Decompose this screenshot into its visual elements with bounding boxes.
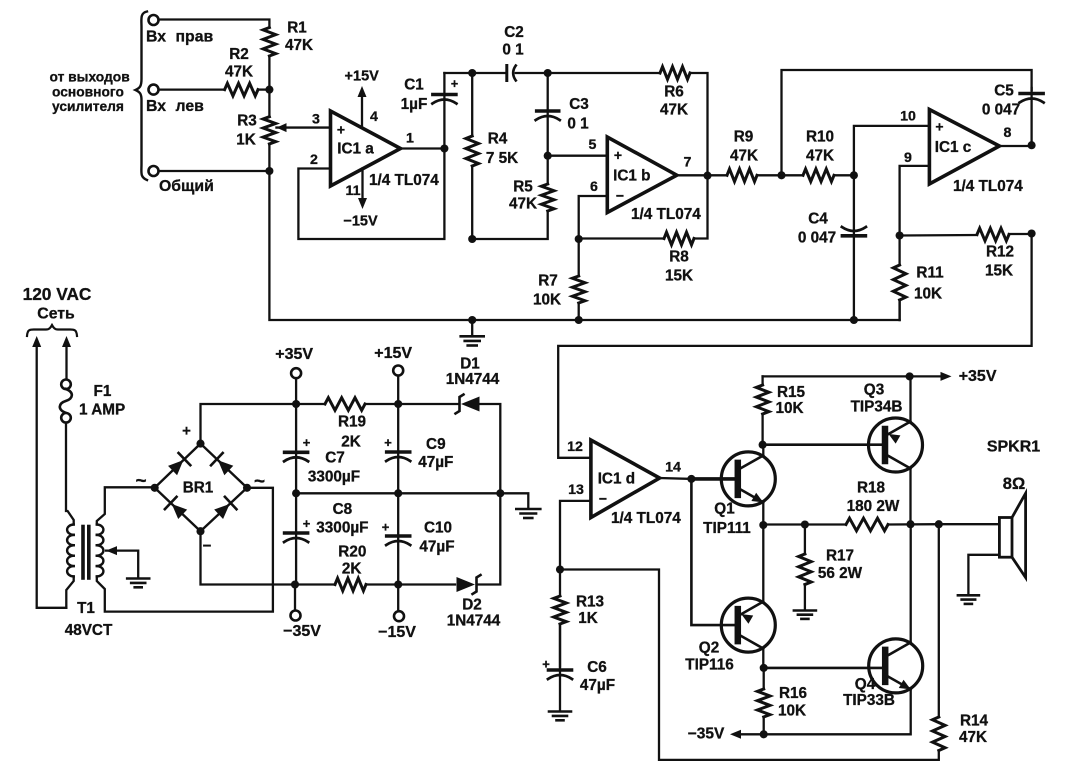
svg-text:180 2W: 180 2W: [847, 498, 900, 515]
resistor R5 wires: [547, 156, 549, 184]
wire fuse to primary: [66, 423, 74, 525]
svg-text:−: −: [616, 188, 624, 204]
node mid-C9 junction: [394, 489, 402, 497]
svg-text:C7: C7: [325, 450, 345, 467]
wire to Q2 base: [691, 479, 734, 625]
resistor R17: [799, 554, 812, 585]
svg-text:IC1 a: IC1 a: [337, 141, 374, 158]
fuse F1: [61, 380, 71, 390]
svg-text:усилителя: усилителя: [52, 99, 124, 114]
svg-text:56 2W: 56 2W: [818, 565, 863, 582]
svg-text:+35V: +35V: [275, 346, 313, 363]
svg-text:15K: 15K: [985, 263, 1013, 280]
svg-text:47K: 47K: [285, 37, 313, 54]
BR1 diode bottom-right: [214, 504, 229, 519]
resistor R4 wires: [471, 73, 473, 136]
svg-text:+15V: +15V: [374, 345, 412, 362]
wire pin 13: [560, 501, 591, 570]
svg-text:Сеть: Сеть: [37, 306, 75, 323]
svg-text:+15V: +15V: [345, 69, 380, 85]
Q4 emitter wire: [764, 689, 911, 734]
wire R3 to node B: [268, 144, 270, 171]
svg-text:C10: C10: [424, 520, 452, 537]
svg-text:−15V: −15V: [343, 214, 378, 230]
wire R10 to node E: [834, 174, 854, 176]
capacitor C3: [537, 109, 559, 113]
svg-text:IC1 c: IC1 c: [935, 139, 972, 156]
resistor R15: [756, 385, 769, 414]
diode D2 wires: [398, 583, 455, 585]
svg-text:47K: 47K: [959, 729, 987, 746]
svg-text:0 047: 0 047: [798, 230, 836, 247]
svg-text:C1: C1: [404, 77, 424, 94]
svg-text:−: −: [203, 538, 212, 555]
svg-text:15K: 15K: [665, 268, 693, 285]
terminal Вх лев: [149, 85, 159, 95]
terminal +15V: [397, 376, 399, 405]
svg-text:+35V: +35V: [959, 368, 997, 385]
svg-text:SPKR1: SPKR1: [987, 439, 1040, 456]
transistor Q2 (TIP116): [721, 598, 775, 652]
transistor Q1 (TIP111): [721, 452, 775, 506]
wire Q4 base: [764, 667, 885, 670]
svg-text:R13: R13: [576, 594, 604, 611]
wire top rail C1 to C2: [444, 72, 506, 74]
capacitor C5: [1020, 92, 1043, 96]
svg-text:0 1: 0 1: [567, 116, 589, 133]
svg-text:Вх: Вх: [146, 98, 166, 115]
ground power mid: [516, 508, 540, 511]
svg-text:TIP33B: TIP33B: [843, 692, 895, 709]
node R12 junction: [1028, 229, 1036, 237]
svg-text:47K: 47K: [730, 148, 758, 165]
svg-text:+: +: [303, 516, 311, 531]
svg-text:11: 11: [346, 183, 361, 199]
BR1 diode left-top: [168, 460, 183, 475]
resistor R13: [554, 596, 567, 624]
node R16 junction: [760, 730, 768, 738]
capacitor C7 wire: [295, 404, 297, 493]
svg-text:C3: C3: [569, 96, 589, 113]
svg-text:−15V: −15V: [378, 624, 416, 641]
wire amp out to R17: [763, 523, 846, 525]
capacitor C6: [549, 668, 572, 672]
svg-text:C2: C2: [504, 24, 524, 41]
svg-text:47µF: 47µF: [418, 454, 453, 471]
transistor Q3 (TIP34B): [869, 418, 923, 472]
terminal -15V: [397, 585, 399, 612]
node output IC1a junction: [440, 144, 448, 152]
input brace: [136, 12, 148, 181]
svg-text:D1: D1: [460, 356, 480, 373]
svg-text:1/4 TL074: 1/4 TL074: [953, 178, 1023, 195]
svg-text:лев: лев: [176, 98, 205, 115]
resistor R7 wires: [578, 239, 580, 276]
node mid-C7 junction: [292, 489, 300, 497]
power mid rail: [296, 493, 528, 507]
wire C5 feedback rail: [782, 70, 1032, 175]
svg-text:C5: C5: [994, 83, 1014, 100]
svg-text:~: ~: [254, 471, 265, 492]
mains brace: [27, 325, 77, 336]
svg-text:R4: R4: [488, 131, 508, 148]
wire R18 to Q3 node: [888, 523, 939, 526]
svg-text:R6: R6: [664, 84, 684, 101]
wire to Q1 base: [691, 477, 734, 481]
node output IC1b junction: [703, 172, 711, 180]
svg-text:−35V: −35V: [688, 725, 725, 742]
node R4-top junction: [468, 69, 476, 77]
svg-text:TIP111: TIP111: [703, 520, 751, 537]
node gnd-R4 junction: [468, 316, 476, 324]
diode D1 wires: [398, 403, 459, 405]
transistor Q4 (TIP33B): [869, 639, 923, 693]
node -15V junction: [394, 580, 402, 588]
resistor R8: [664, 232, 694, 245]
svg-text:R16: R16: [779, 685, 807, 702]
svg-text:~: ~: [135, 471, 146, 492]
svg-text:47µF: 47µF: [580, 677, 615, 694]
capacitor C10 wire: [397, 493, 399, 584]
svg-text:1 AMP: 1 AMP: [79, 402, 125, 419]
T1 center tap: [106, 546, 117, 555]
svg-text:Общий: Общий: [159, 178, 214, 195]
svg-text:47K: 47K: [660, 102, 688, 119]
feedback wire to bottom rail: [560, 570, 939, 760]
svg-text:1N4744: 1N4744: [446, 371, 500, 388]
svg-text:47K: 47K: [225, 64, 253, 81]
IC1b output wire pin7: [677, 174, 727, 176]
svg-text:R17: R17: [826, 548, 854, 565]
svg-text:47µF: 47µF: [419, 539, 454, 556]
wire R14 to speaker node: [938, 524, 940, 717]
capacitor C1: [433, 93, 456, 97]
svg-text:IC1 b: IC1 b: [613, 168, 650, 185]
ground C6: [549, 710, 571, 713]
svg-text:+: +: [384, 435, 392, 450]
IC1d output wire pin14: [660, 477, 692, 480]
svg-text:12: 12: [567, 439, 583, 455]
svg-text:Q2: Q2: [699, 640, 719, 657]
resistor R11 wires: [898, 236, 900, 266]
op-amp IC1 b: [607, 137, 677, 213]
svg-text:10K: 10K: [533, 292, 561, 309]
transformer T1 core: [81, 527, 85, 579]
IC1c output wire pin8: [999, 145, 1031, 147]
resistor R18: [846, 518, 888, 531]
wire R9 to node D: [757, 174, 782, 176]
wire node A to R3: [268, 90, 270, 117]
potentiometer R3: [263, 117, 276, 144]
resistor R12: [977, 228, 1009, 241]
Q1 emitter wire: [762, 502, 764, 525]
IC1a +15V supply arrow: [361, 93, 363, 127]
node -35V junction: [291, 580, 299, 588]
svg-text:2K: 2K: [342, 561, 362, 578]
svg-text:1N4744: 1N4744: [447, 613, 501, 630]
svg-text:9: 9: [904, 150, 912, 166]
terminal Общий: [149, 166, 159, 176]
node C junction: [544, 69, 552, 77]
svg-text:+: +: [382, 520, 390, 535]
signal ground rail: [269, 171, 899, 320]
node BR1 right junction: [243, 484, 251, 492]
svg-text:+: +: [935, 119, 943, 135]
BR1 diode right-top: [218, 460, 233, 475]
svg-text:R19: R19: [338, 414, 366, 431]
transformer T1 primary winding: [67, 525, 74, 535]
node gnd-R7 junction: [575, 316, 583, 324]
svg-text:13: 13: [568, 482, 584, 498]
node R17 junction: [801, 520, 809, 528]
svg-text:R3: R3: [237, 113, 257, 130]
svg-text:120 VAC: 120 VAC: [23, 284, 92, 304]
resistor R7: [572, 276, 585, 303]
capacitor C4 wire: [853, 175, 855, 320]
op-amp IC1 a: [331, 111, 401, 186]
svg-text:R12: R12: [986, 244, 1014, 261]
resistor R9: [727, 169, 757, 182]
node R13 junction: [556, 565, 564, 573]
wire R11 bottom: [898, 300, 900, 320]
svg-text:C8: C8: [333, 501, 353, 518]
resistor R20: [335, 578, 366, 591]
node Q3-Q4 collector junction: [906, 520, 914, 528]
svg-text:7: 7: [684, 155, 692, 171]
svg-text:14: 14: [665, 460, 681, 476]
svg-text:R8: R8: [669, 249, 689, 266]
wire BR1 plus to +35V rail: [201, 404, 297, 444]
diode D1 (zener): [461, 397, 480, 412]
op-amp IC1 d: [591, 440, 660, 518]
svg-text:TIP34B: TIP34B: [851, 399, 903, 416]
svg-text:Q3: Q3: [864, 382, 884, 399]
node E junction: [850, 171, 858, 179]
svg-text:3300µF: 3300µF: [316, 520, 368, 537]
resistor R2: [225, 83, 258, 96]
capacitor C4: [842, 227, 866, 231]
svg-text:1: 1: [406, 131, 414, 147]
wire BR1 minus to -35V rail: [201, 531, 296, 584]
svg-text:R9: R9: [734, 129, 754, 146]
svg-text:−: −: [599, 491, 607, 507]
resistor R16: [757, 689, 770, 717]
terminal +35V: [295, 378, 297, 404]
svg-text:C4: C4: [808, 211, 828, 228]
wire pin 6: [579, 196, 608, 239]
Q3 emitter wire: [909, 376, 911, 421]
capacitor C9 wire: [397, 404, 399, 493]
wire +35V rail amp: [763, 375, 910, 377]
svg-text:R18: R18: [857, 480, 886, 497]
wire +35V rail R19: [296, 403, 325, 405]
svg-text:48VCT: 48VCT: [65, 622, 113, 639]
svg-text:+: +: [542, 657, 550, 672]
svg-text:D2: D2: [462, 597, 482, 614]
resistor R12 wires: [900, 234, 977, 237]
svg-text:10: 10: [900, 109, 916, 125]
node output IC1d junction: [687, 475, 695, 483]
node pin9 junction: [896, 231, 904, 239]
resistor R6 wires: [548, 72, 660, 74]
svg-text:R11: R11: [916, 265, 944, 282]
capacitor C8: [285, 531, 308, 535]
resistor R15 wires: [761, 376, 763, 385]
svg-text:7 5K: 7 5K: [486, 150, 518, 167]
capacitor C9: [387, 450, 410, 454]
capacitor C3 wire: [547, 73, 549, 156]
mains left wire: [32, 336, 41, 347]
svg-text:1/4 TL074: 1/4 TL074: [369, 172, 439, 189]
ground R17: [794, 609, 816, 612]
node mid-D junction: [496, 489, 504, 497]
wire pin 9: [900, 166, 930, 236]
svg-text:1/4 TL074: 1/4 TL074: [631, 206, 701, 223]
wire R2 to node A: [258, 88, 269, 90]
Q2 collector wire: [762, 649, 764, 668]
node Q3 emitter junction: [906, 372, 914, 380]
svg-text:R10: R10: [806, 129, 834, 146]
Q3 collector wire: [909, 469, 911, 525]
node pin5 junction: [544, 152, 552, 160]
svg-text:BR1: BR1: [183, 480, 214, 497]
svg-text:R1: R1: [287, 20, 307, 37]
resistor R19: [325, 398, 365, 411]
svg-text:47K: 47K: [806, 148, 834, 165]
resistor R6: [660, 67, 690, 80]
svg-text:1µF: 1µF: [401, 96, 428, 113]
node B junction: [265, 167, 273, 175]
svg-text:F1: F1: [94, 383, 112, 400]
resistor R1: [263, 28, 276, 57]
ground speaker: [958, 594, 979, 597]
diode D2 (zener): [457, 577, 476, 592]
node A junction: [265, 86, 273, 94]
svg-text:R2: R2: [229, 46, 249, 63]
node R4-bottom junction: [468, 235, 476, 243]
node BR1 left junction: [151, 484, 159, 492]
wire Общий to node B: [159, 170, 270, 172]
svg-text:8: 8: [1004, 125, 1012, 141]
capacitor C1 wire: [443, 73, 445, 149]
IC1a feedback wire pin2: [298, 149, 444, 240]
svg-text:IC1 d: IC1 d: [598, 471, 635, 488]
wire C2 to node C: [516, 72, 548, 74]
wire -35V rail R20: [295, 583, 335, 585]
node output IC1c junction: [1028, 141, 1036, 149]
node R14 junction: [935, 520, 943, 528]
wire C5 to IC1c output: [1030, 88, 1032, 145]
node D junction: [777, 171, 785, 179]
wire Q3 base: [763, 443, 884, 446]
wire input-left to R2: [159, 88, 225, 90]
R3 wiper arrow: [277, 123, 287, 132]
svg-text:+: +: [614, 147, 622, 163]
svg-text:C6: C6: [587, 659, 607, 676]
svg-text:+: +: [182, 423, 191, 440]
Q4 collector wire: [910, 524, 912, 642]
svg-text:47K: 47K: [509, 196, 537, 213]
wire secondary bottom to BR1: [97, 488, 273, 612]
ground signal: [471, 320, 473, 335]
wire node D to R10: [782, 174, 804, 176]
svg-text:1/4 TL074: 1/4 TL074: [611, 510, 681, 527]
ground center tap: [127, 577, 149, 580]
svg-text:6: 6: [590, 179, 598, 195]
wire pin 5: [548, 155, 607, 157]
resistor R14: [933, 717, 946, 751]
node Q2 collector junction: [760, 664, 768, 672]
wire pin 10: [854, 126, 929, 175]
svg-text:2K: 2K: [341, 434, 361, 451]
svg-text:10K: 10K: [775, 400, 803, 417]
resistor R5: [541, 184, 554, 211]
svg-text:8Ω: 8Ω: [1003, 475, 1025, 493]
svg-text:0 047: 0 047: [982, 102, 1020, 119]
svg-text:+: +: [451, 77, 458, 91]
svg-text:−35V: −35V: [283, 623, 321, 640]
node pin6 junction: [575, 235, 583, 243]
node +15V junction: [394, 400, 402, 408]
svg-text:3300µF: 3300µF: [308, 469, 360, 486]
resistor R16 wires: [763, 668, 765, 689]
capacitor C2: [505, 66, 508, 81]
wire secondary top to BR1: [97, 487, 150, 524]
svg-text:прав: прав: [176, 29, 214, 46]
node gnd-C4 junction: [850, 316, 858, 324]
resistor R17 wires: [804, 525, 806, 555]
svg-text:TIP116: TIP116: [685, 657, 733, 674]
node BR1 bottom junction: [196, 527, 204, 535]
svg-text:R7: R7: [538, 273, 558, 290]
+35V rail arrow: [910, 375, 940, 377]
svg-text:1K: 1K: [578, 610, 598, 627]
wire C6 to ground: [559, 624, 561, 710]
svg-text:от выходов: от выходов: [50, 70, 130, 85]
resistor R4: [466, 136, 479, 166]
IC1a output wire pin1: [401, 147, 445, 149]
wire R1 to node A: [268, 56, 270, 90]
resistor R8 wires: [579, 237, 664, 239]
svg-text:1K: 1K: [236, 132, 256, 149]
capacitor C8 wire: [295, 493, 297, 584]
op-amp IC1 c: [929, 110, 999, 185]
node +35V junction: [292, 400, 300, 408]
resistor R11: [893, 265, 906, 300]
transformer T1 secondary winding: [97, 525, 104, 535]
node BR1 top junction: [196, 440, 204, 448]
svg-text:10K: 10K: [778, 703, 806, 720]
svg-text:основного: основного: [52, 85, 124, 100]
wire IC1c output to IC1d pin12: [558, 234, 1031, 458]
speaker SPKR1: [999, 518, 1012, 558]
svg-text:Q1: Q1: [714, 501, 735, 518]
Q1 collector wire: [762, 445, 764, 456]
svg-text:0 1: 0 1: [502, 42, 524, 59]
wire primary bottom: [66, 576, 73, 607]
wire to speaker: [939, 523, 1000, 525]
svg-text:R5: R5: [513, 179, 533, 196]
svg-text:4: 4: [370, 109, 378, 125]
capacitor C10: [387, 534, 410, 538]
node Q3 base junction: [759, 441, 767, 449]
terminal -35V: [294, 585, 296, 612]
svg-text:R14: R14: [960, 713, 989, 730]
svg-text:+: +: [337, 122, 345, 138]
mains right wire: [62, 336, 71, 347]
svg-text:3: 3: [312, 112, 320, 128]
terminal Вх прав: [149, 15, 159, 25]
